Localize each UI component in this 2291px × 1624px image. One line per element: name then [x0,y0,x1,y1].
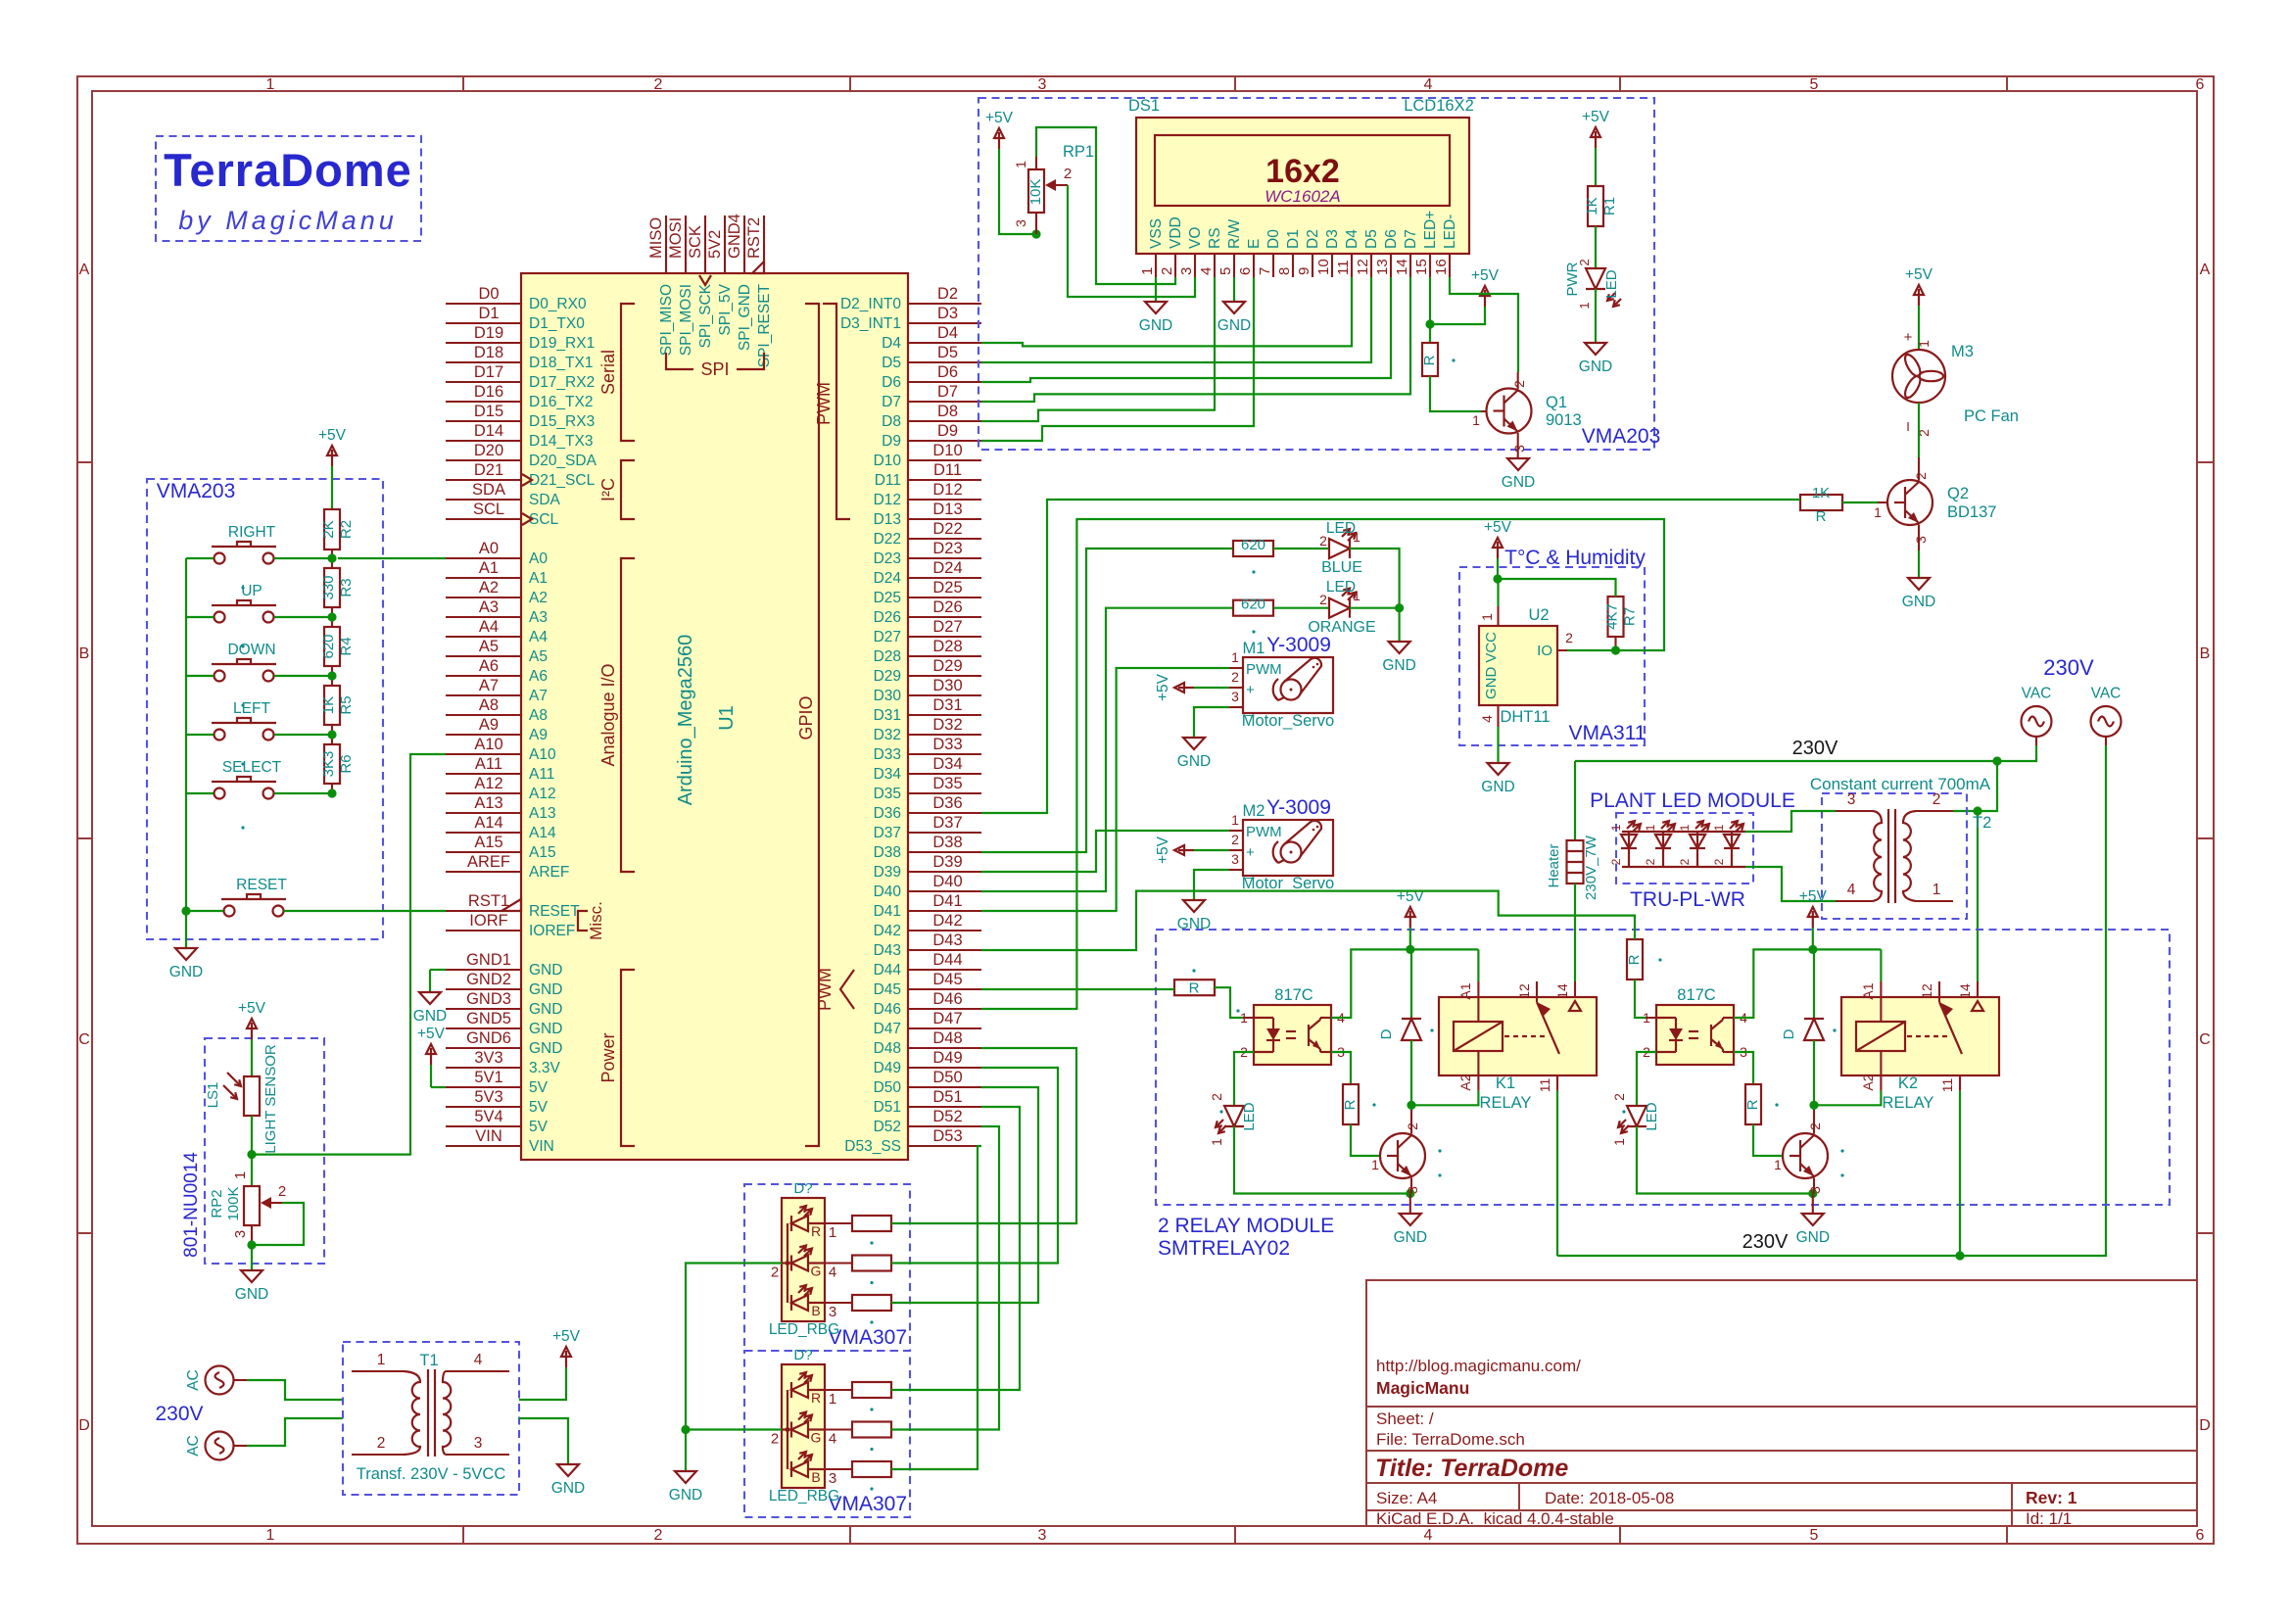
junction at resistor chain row 570 [327,553,336,562]
svg-text:D21_SCL: D21_SCL [529,472,596,489]
svg-text:D40: D40 [932,873,962,890]
LCD VSS to GND [1155,277,1157,302]
svg-text:A11: A11 [475,755,502,773]
svg-text:5V: 5V [529,1119,549,1135]
svg-text:2: 2 [1577,259,1592,265]
svg-text:BD137: BD137 [1947,503,1996,521]
svg-text:U2: U2 [1528,606,1549,624]
wire D46 to DHT11 IO [981,519,1664,1009]
svg-text:1K: 1K [320,696,337,714]
svg-text:SPI_SCK: SPI_SCK [697,283,714,348]
svg-text:Size: A4: Size: A4 [1376,1489,1437,1507]
svg-text:1: 1 [266,76,275,93]
svg-text:4: 4 [1198,267,1215,275]
svg-text:1: 1 [1774,1157,1782,1172]
LCD pin 1 VSS [1155,254,1157,277]
relay pin A1 [1880,981,1882,1022]
svg-text:A2: A2 [1457,1074,1473,1090]
VMA203 LCD dashed box [978,98,1654,450]
svg-text:AREF: AREF [529,864,569,881]
svg-text:D24: D24 [932,559,962,577]
svg-text:GND: GND [1502,474,1535,491]
svg-text:D47: D47 [874,1021,901,1037]
top pin SPI_5V global label 5V2 [724,215,726,273]
svg-text:+: + [1904,329,1913,346]
svg-text:D43: D43 [932,931,962,949]
relay pin A2 [1880,1051,1882,1091]
svg-text:1: 1 [1916,340,1932,348]
wire +5V junction to R7 [1498,579,1616,597]
svg-text:3: 3 [1231,851,1239,867]
VAC source 2 [2091,706,2122,737]
driver transistor [1380,1133,1425,1178]
svg-text:1: 1 [1371,1157,1379,1172]
svg-text:620: 620 [1241,597,1265,613]
series resistor module 1 R [825,1222,852,1224]
svg-text:D41: D41 [874,903,901,920]
LED_RBG 2 body [782,1364,825,1488]
svg-text:+5V: +5V [1155,673,1171,701]
pushbutton UP [215,612,225,623]
svg-text:3: 3 [829,1470,836,1487]
potentiometer RP2 100K [244,1186,260,1225]
junction collector/diode/A2 [1407,1101,1415,1110]
LCD pin 12 D5 [1370,254,1372,277]
svg-text:D20: D20 [474,442,503,459]
svg-text:D32: D32 [932,716,962,734]
svg-text:by MagicManu: by MagicManu [178,206,398,235]
svg-text:D50: D50 [932,1069,962,1086]
svg-text:+5V: +5V [985,110,1014,126]
svg-text:3: 3 [1913,536,1929,544]
plant led module dashed box [1616,813,1753,884]
wire T2 pin3 to plant leds anode [1745,811,1836,832]
svg-text:3: 3 [829,1304,836,1320]
svg-text:LED-: LED- [1442,215,1458,249]
svg-text:D44: D44 [874,962,902,979]
transformer T2 dashed box [1822,793,1967,919]
svg-text:Y-3009: Y-3009 [1266,634,1331,656]
svg-text:5V3: 5V3 [474,1088,502,1106]
svg-text:230V_7W: 230V_7W [1583,835,1599,900]
svg-text:D33: D33 [874,746,901,763]
svg-text:D31: D31 [874,707,901,724]
+5V above fan M3 [1918,289,1920,306]
plant LED 1 [1621,835,1637,848]
svg-text:RST2: RST2 [745,217,763,259]
svg-text:K2: K2 [1898,1075,1918,1092]
wire LED to gnd rail [1234,1126,1410,1194]
svg-text:A3: A3 [479,598,499,616]
svg-text:2: 2 [1933,791,1941,808]
svg-text:D27: D27 [874,629,901,645]
LED_RBG 1 B led [791,1295,808,1311]
svg-text:D6: D6 [1383,229,1400,249]
svg-text:Q2: Q2 [1947,485,1969,502]
resistor R2 2K [324,509,340,549]
wire servo M1 pin3 to GND [1194,707,1229,738]
svg-text:Motor_Servo: Motor_Servo [1242,875,1334,892]
svg-text:GND: GND [1796,1229,1830,1246]
wire blue led cathode to junction [1350,549,1400,608]
svg-text:SDA: SDA [472,481,505,499]
svg-text:D4: D4 [937,324,958,342]
svg-text:D35: D35 [932,775,962,792]
pushbutton SELECT [215,788,225,799]
servo M2 pin2 + [1229,849,1243,851]
wire rail to GND [185,911,187,948]
svg-text:A5: A5 [479,638,499,655]
servo M1 Y-3009 body [1243,657,1333,713]
svg-text:A2: A2 [479,579,499,597]
input-low triangle RST2 [752,262,764,273]
svg-text:LS1: LS1 [205,1082,221,1109]
relay pin 11 [1959,1075,1961,1091]
wire servo M2 pin3 to GND [1194,870,1229,900]
relay body [1841,997,1999,1075]
svg-text:2: 2 [1231,832,1239,847]
transistor Q1 9013 [1487,389,1532,434]
svg-text:Analogue I/O: Analogue I/O [598,663,618,766]
svg-text:A12: A12 [474,775,502,792]
svg-text:3: 3 [1405,1186,1420,1194]
svg-text:+5V: +5V [238,1000,266,1017]
svg-text:5V: 5V [529,1079,549,1096]
svg-text:3: 3 [1038,1527,1047,1544]
svg-text:GND: GND [1382,657,1415,674]
svg-text:D38: D38 [874,844,901,861]
svg-text:E: E [1246,239,1263,249]
svg-text:2: 2 [1159,267,1175,275]
indicator LED [1637,1052,1656,1106]
LED_RBG 2 R led [791,1382,808,1398]
+5V near Q1 [1484,290,1486,307]
wire K1 R to opto pin1 [1215,987,1243,1018]
svg-text:4: 4 [1424,1527,1433,1544]
relay NC contact mark [1569,1001,1581,1011]
wire D51 to RGB module [891,1107,1020,1390]
T1 primary coil [404,1371,420,1455]
svg-text:620: 620 [1241,537,1265,553]
svg-text:D49: D49 [874,1060,901,1076]
title block divider lines [1366,1406,2197,1408]
svg-text:D0_RX0: D0_RX0 [529,296,587,312]
svg-text:D50: D50 [874,1079,902,1096]
resistor R4 620 [324,627,340,666]
svg-text:A2: A2 [529,590,548,606]
svg-text:GND: GND [1177,753,1211,770]
svg-text:D44: D44 [932,951,962,969]
LED ORANGE [1329,598,1350,618]
svg-text:D39: D39 [874,864,901,881]
svg-text:IORF: IORF [469,912,507,930]
wire K2 pin11 to 230V bottom line [1959,1091,1961,1256]
svg-text:Sheet: /: Sheet: / [1376,1409,1434,1428]
svg-text:5: 5 [1810,76,1819,93]
pushbutton LEFT [215,730,225,740]
svg-text:330: 330 [320,575,337,599]
GPIO bracket [805,304,819,1146]
svg-text:D51: D51 [874,1099,901,1116]
pushbutton DOWN [215,671,225,682]
DHT11 pin1 VCC [1497,606,1499,626]
optocoupler 817C [1656,1005,1734,1065]
PWM upper bracket [823,304,850,519]
svg-text:A0: A0 [529,550,548,567]
svg-text:AC: AC [185,1435,202,1457]
svg-text:VMA307: VMA307 [828,1493,907,1515]
svg-text:+5V: +5V [552,1328,581,1345]
svg-text:IOREF: IOREF [529,923,575,939]
svg-text:D37: D37 [874,825,901,841]
svg-text:3: 3 [474,1435,483,1452]
svg-text:D26: D26 [932,598,962,616]
svg-text:4: 4 [474,1352,483,1368]
svg-text:2 RELAY MODULE: 2 RELAY MODULE [1158,1215,1334,1237]
svg-text:PWR: PWR [1564,262,1581,296]
svg-text:B: B [2200,645,2211,662]
svg-text:A6: A6 [529,668,548,685]
svg-text:D7: D7 [882,394,901,410]
svg-text:A10: A10 [529,746,556,763]
LED_RBG 1 G led [791,1256,808,1271]
svg-text:T°C & Humidity: T°C & Humidity [1504,547,1646,569]
wire A2 to collector junction [1814,1091,1881,1106]
svg-text:VIN: VIN [475,1127,502,1145]
svg-text:R2: R2 [338,520,355,539]
svg-text:Arduino_Mega2560: Arduino_Mega2560 [675,635,696,806]
svg-text:GND: GND [529,1040,562,1057]
svg-text:1: 1 [1139,267,1156,275]
svg-text:RESET: RESET [529,903,580,920]
servo M1 pin3 - [1229,706,1243,708]
svg-text:D1: D1 [1285,229,1302,249]
svg-text:9: 9 [1296,267,1313,275]
svg-text:D14: D14 [474,422,503,440]
T1 pin 3 [446,1454,509,1456]
transformer T1 dashed box [343,1342,519,1495]
svg-text:A: A [79,262,90,278]
svg-text:DHT11: DHT11 [1500,708,1550,726]
svg-text:3: 3 [1038,76,1047,93]
svg-text:A4: A4 [529,629,548,645]
svg-text:GND: GND [235,1286,268,1303]
relay module dashed box [1156,930,2170,1205]
relay pin 14 [1977,981,1979,997]
svg-text:D16_TX2: D16_TX2 [529,394,593,410]
svg-text:A9: A9 [529,727,548,743]
svg-text:2: 2 [1611,1093,1627,1101]
svg-text:2: 2 [654,76,663,93]
wire A2 to collector junction [1411,1091,1478,1106]
svg-text:R5: R5 [338,695,355,714]
svg-text:D6: D6 [937,363,958,381]
svg-text:LED+: LED+ [1422,211,1439,249]
svg-text:1: 1 [266,1527,275,1544]
junction gnd rail [1406,1189,1414,1198]
svg-text:VCC: VCC [1483,632,1500,663]
svg-text:D52: D52 [874,1119,901,1135]
svg-text:D28: D28 [874,648,901,665]
LCD pin 10 D3 [1331,254,1333,277]
svg-text:RELAY: RELAY [1480,1094,1532,1112]
plant LED 2 [1655,835,1671,848]
svg-text:D53: D53 [932,1127,962,1145]
svg-text:13: 13 [1374,259,1391,275]
wire RIGHT right contact to resistor chain [274,557,332,559]
svg-text:D12: D12 [932,481,962,499]
svg-text:D14_TX3: D14_TX3 [529,433,593,450]
svg-text:1: 1 [1353,529,1360,545]
svg-text:D10: D10 [932,442,962,459]
ground under RP2 [241,1270,263,1282]
svg-text:A15: A15 [474,834,502,851]
svg-text:GND1: GND1 [466,951,511,969]
svg-text:GND: GND [1177,916,1211,932]
svg-text:D29: D29 [874,668,901,685]
svg-text:D45: D45 [874,981,901,998]
svg-text:MOSI: MOSI [667,217,685,259]
svg-text:GND: GND [1483,667,1500,700]
relay coil [1454,1022,1503,1051]
svg-text:Date: 2018-05-08: Date: 2018-05-08 [1545,1489,1674,1507]
svg-text:D41: D41 [932,892,962,910]
svg-text:D46: D46 [932,990,962,1008]
svg-text:100K: 100K [225,1186,242,1220]
svg-text:LED_RBG: LED_RBG [769,1488,839,1505]
PWM lower bracket D44-D46 [840,970,854,1009]
svg-text:D29: D29 [932,657,962,675]
svg-text:D0: D0 [478,285,499,303]
LCD pin 2 VDD [1174,254,1176,277]
junction orange/blue cathodes [1350,607,1400,609]
svg-text:GND5: GND5 [466,1010,511,1027]
svg-text:D20_SDA: D20_SDA [529,453,597,469]
ground under Q2 [1918,550,1920,578]
plant led cathode rail [1622,866,1745,868]
svg-text:K1: K1 [1496,1075,1515,1092]
wire DOWN left contact to rail [186,675,214,677]
svg-text:Id: 1/1: Id: 1/1 [2026,1509,2072,1528]
svg-text:LED: LED [1644,1102,1660,1130]
relay switch common pin 12 [1938,981,1940,1002]
RP2 wiper arrow pin 2 [261,1197,271,1209]
svg-text:11: 11 [1939,1078,1955,1093]
ground for RGB modules [675,1471,696,1483]
svg-text:SPI_MISO: SPI_MISO [658,284,675,356]
+5V relay K1 [1409,911,1411,928]
svg-text:A4: A4 [479,618,499,636]
svg-text:2: 2 [1565,630,1573,645]
svg-text:R6: R6 [338,754,355,773]
svg-text:D1: D1 [478,305,499,322]
svg-text:2: 2 [654,1527,663,1544]
wire 230V to T2 primary [1953,761,1997,811]
pushbutton RESET [224,906,235,917]
svg-text:A11: A11 [529,766,554,783]
wire D8 to LCD RS [981,277,1215,421]
svg-text:GND6: GND6 [466,1029,511,1047]
wire VAC2 down to relay line [1557,745,2106,1256]
svg-text:A1: A1 [529,570,548,587]
LED_RBG 2 G led [791,1422,808,1438]
svg-text:D13: D13 [874,511,901,528]
svg-text:D42: D42 [874,923,901,939]
svg-text:4: 4 [1479,715,1495,723]
svg-text:230V: 230V [2043,655,2094,680]
svg-text:10: 10 [1315,259,1332,275]
relay pin A2 [1477,1051,1479,1091]
svg-text:DS1: DS1 [1128,97,1160,115]
svg-text:PWM: PWM [1246,661,1282,678]
wire D9 to LCD E [981,277,1254,441]
servo M2 pin1 PWM [1229,830,1243,832]
svg-text:D17: D17 [474,363,503,381]
relay pin A1 [1477,981,1479,1022]
svg-text:2: 2 [1644,858,1657,865]
svg-text:+5V: +5V [318,427,347,444]
svg-text:Serial: Serial [598,350,618,395]
svg-text:14: 14 [1957,983,1973,999]
svg-text:SPI_5V: SPI_5V [717,283,734,335]
svg-text:Heater: Heater [1546,843,1562,887]
backlight resistor R [1429,324,1431,343]
LCD pin 4 RS [1214,254,1216,277]
svg-text:Constant current 700mA: Constant current 700mA [1810,775,1991,793]
LCD pin 11 D4 [1351,254,1353,277]
svg-text:D22: D22 [932,520,962,538]
ground under PWR LED [1585,343,1606,355]
svg-text:MagicManu: MagicManu [1376,1378,1469,1398]
LCD pin 9 D2 [1312,254,1313,277]
AC source top [206,1366,234,1395]
svg-text:+5V: +5V [1799,888,1828,905]
svg-text:5V: 5V [529,1099,549,1116]
svg-text:5: 5 [1810,1527,1819,1544]
svg-text:D: D [1781,1028,1797,1039]
+5V relay K2 [1812,911,1814,928]
wire T1 pin4 to +5V [519,1367,566,1400]
svg-text:2: 2 [1319,533,1327,549]
svg-text:LCD16X2: LCD16X2 [1404,97,1474,115]
junction +5V rail [1808,945,1817,954]
svg-text:1: 1 [1231,812,1239,828]
wire +5V to R2 [331,466,333,509]
svg-text:D9: D9 [882,433,901,450]
svg-text:SCL: SCL [473,501,504,518]
svg-text:D3: D3 [937,305,958,322]
resistor R3 330 [324,568,340,607]
svg-text:A3: A3 [529,609,548,626]
top pin SPI_SCK global label SCK [704,215,706,273]
wire K1 pin11 to 230V bottom line [1556,1091,1558,1256]
svg-text:GND: GND [1579,358,1612,375]
top pin SPI_GND global label GND4 [743,215,745,273]
junction at resistor chain row 630 [327,612,336,621]
junction 230V rail [1992,756,2001,765]
svg-text:4: 4 [1424,76,1433,93]
svg-text:D38: D38 [932,834,962,851]
svg-text:4: 4 [829,1265,836,1281]
svg-text:D8: D8 [882,413,901,430]
plant LED 4 [1724,835,1740,848]
svg-text:R: R [1626,954,1643,965]
top pin SPI_RESET global label RST2 [763,215,765,273]
svg-text:817C: 817C [1274,986,1313,1004]
svg-text:SPI_GND: SPI_GND [737,284,753,351]
svg-text:TRU-PL-WR: TRU-PL-WR [1630,888,1745,911]
K2 input resistor R vertical [1627,939,1643,979]
